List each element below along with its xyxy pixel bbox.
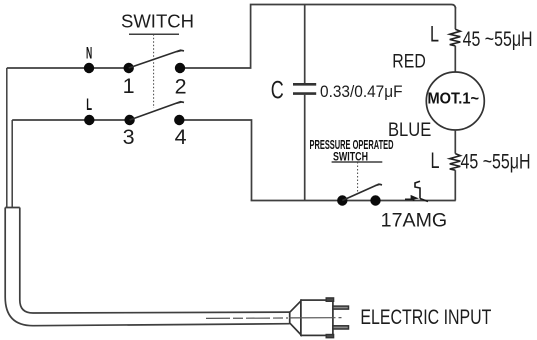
wire N row from left rail to node 1	[7, 67, 129, 69]
node N junction dot	[84, 63, 94, 73]
node 2 dot	[175, 63, 185, 73]
pressure switch contact dot left	[337, 195, 347, 205]
svg-text:L: L	[430, 22, 439, 47]
inductor L2 coil	[450, 154, 461, 171]
node 3 dot	[124, 115, 134, 125]
thermal protector arrowhead	[411, 196, 418, 200]
svg-text:N: N	[86, 44, 92, 63]
switch label underline	[129, 33, 179, 35]
inductor L1 lead bottom	[454, 46, 456, 72]
wire left inner (L) drop	[11, 120, 13, 208]
cable sheath outline	[5, 208, 290, 326]
thermal protector symbol	[405, 181, 428, 201]
inductor L1 coil	[450, 29, 461, 46]
switch gang dotted link line	[153, 34, 155, 108]
wire left outer (N) drop	[6, 68, 8, 208]
motor MOT.1 circle	[426, 72, 484, 130]
svg-text:45 ~55μH: 45 ~55μH	[461, 150, 531, 173]
inductor L2 lead bottom	[454, 170, 456, 200]
plug prong bottom	[333, 326, 349, 329]
svg-text:3: 3	[123, 125, 135, 149]
plug body	[301, 300, 333, 335]
capacitor C1 bottom lead	[304, 94, 306, 201]
plug trapezoid neck	[290, 301, 301, 335]
svg-text:0.33/0.47μF: 0.33/0.47μF	[320, 82, 403, 101]
node 4 dot	[174, 115, 184, 125]
svg-text:BLUE: BLUE	[388, 119, 431, 141]
capacitor C1 top lead	[304, 5, 306, 85]
svg-text:45 ~55μH: 45 ~55μH	[463, 28, 533, 51]
plug tab top	[326, 298, 333, 301]
inductor L2 lead top	[454, 130, 456, 154]
svg-text:ELECTRIC INPUT: ELECTRIC INPUT	[360, 306, 491, 329]
node L junction dot	[84, 115, 94, 125]
svg-text:1: 1	[123, 74, 135, 98]
plug prong top	[333, 306, 349, 309]
svg-text:C: C	[271, 77, 284, 105]
pressure switch underline	[332, 161, 383, 163]
plug tab bottom	[326, 335, 333, 338]
pressure switch dotted link	[357, 162, 359, 192]
svg-text:SWITCH: SWITCH	[121, 12, 194, 32]
capacitor C1 plates	[293, 84, 316, 93]
switch blade pole 3-4	[130, 102, 184, 121]
cable center dash line (left of plug)	[206, 317, 288, 319]
svg-text:L: L	[86, 95, 92, 114]
node 1 dot	[124, 63, 134, 73]
wire bottom rail	[251, 200, 456, 202]
svg-text:PRESSURE OPERATED: PRESSURE OPERATED	[310, 137, 394, 152]
svg-text:MOT.1~: MOT.1~	[428, 91, 480, 108]
wire top rail from node 2 up and across to right branch	[180, 5, 455, 69]
plug center axis line	[289, 317, 342, 319]
svg-text:RED: RED	[392, 51, 426, 73]
svg-text:4: 4	[175, 125, 187, 149]
svg-text:17AMG: 17AMG	[381, 210, 448, 232]
wire from node 4 down to bottom rail	[179, 120, 251, 201]
svg-text:L: L	[431, 148, 440, 173]
inductor L1 lead top	[454, 7, 456, 29]
pressure switch contact dot right	[370, 195, 380, 205]
pressure switch blade	[342, 184, 382, 201]
svg-text:2: 2	[175, 75, 187, 99]
wire L row from left rail to node 3	[12, 119, 129, 121]
switch blade pole 1-2	[129, 50, 184, 68]
